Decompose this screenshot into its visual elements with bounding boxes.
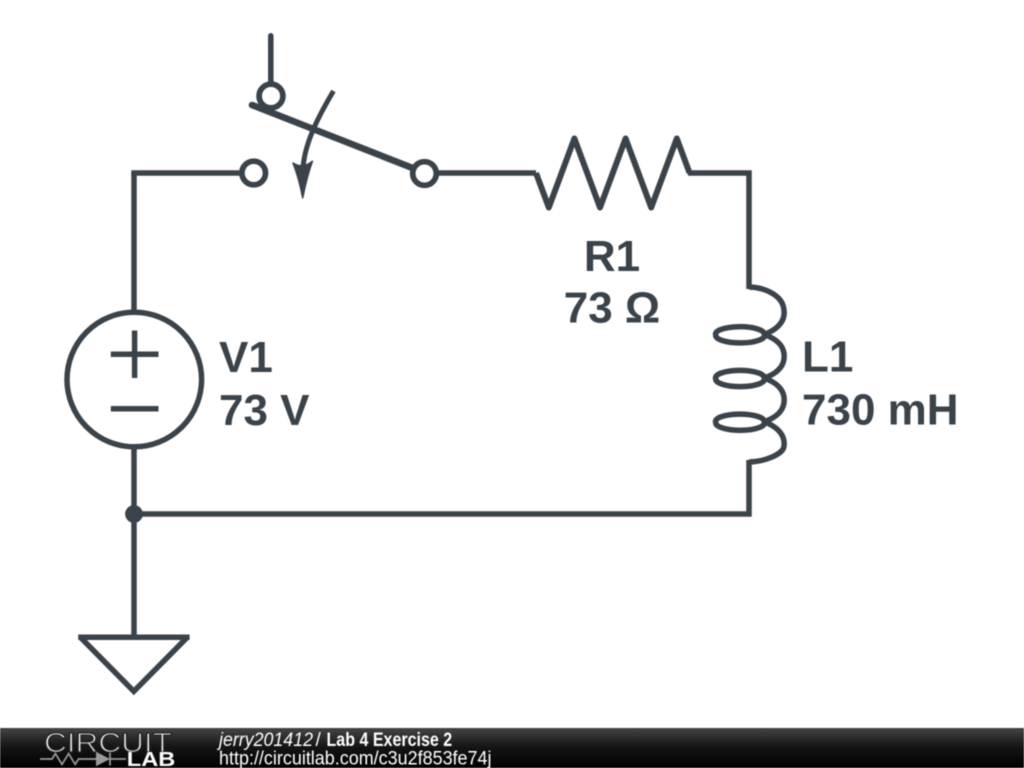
voltage source V1 circle [67,312,202,447]
logo resistor-diode icon [40,753,126,766]
wire resistor to right corner, down to inductor [688,173,749,289]
switch right terminal circle [413,162,437,186]
wire switch right terminal to resistor [430,170,536,176]
V1 minus sign [111,406,159,412]
logo diode triangle [96,752,110,766]
wire V1 bottom to junction [131,447,137,514]
svg-text:73 V: 73 V [219,386,310,435]
svg-text:V1: V1 [219,333,273,382]
svg-text:LAB: LAB [127,748,176,768]
wire inductor bottom to bottom rail, then bottom rail to junction [134,460,749,514]
switch arrow arc [303,91,333,166]
svg-text:http://circuitlab.com/c3u2f853: http://circuitlab.com/c3u2f853fe74j [219,749,492,768]
switch left terminal circle [242,161,266,185]
switch arrow head [293,161,312,198]
wire left vertical top (V1 top to corner) [131,173,137,312]
svg-text:730 mH: 730 mH [802,386,959,435]
resistor R1 [536,139,690,208]
switch blade [252,105,424,173]
footer bar [0,728,1024,768]
junction node dot [125,505,143,523]
svg-text:R1: R1 [584,232,640,281]
wire junction to ground [131,514,137,637]
ground symbol [78,635,189,641]
V1 plus sign [111,331,159,379]
inductor L1 coil [716,287,785,462]
svg-text:L1: L1 [802,333,853,382]
switch top terminal circle [259,84,283,108]
wire top horizontal (corner to switch left terminal) [131,170,246,176]
wire switch top stub [268,36,274,86]
svg-text:73 Ω: 73 Ω [564,284,660,333]
